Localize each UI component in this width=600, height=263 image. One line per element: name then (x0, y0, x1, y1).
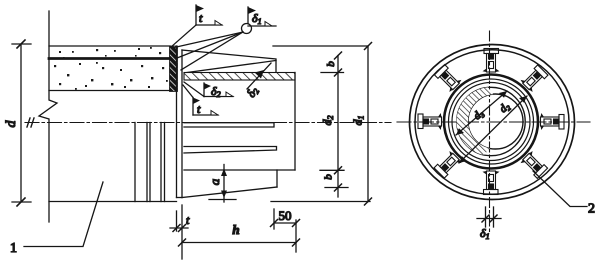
svg-text:δ1: δ1 (480, 226, 490, 241)
part label 1 leader (24, 182, 103, 247)
weld flag delta1 with circle (172, 7, 276, 70)
spigot pipe outline line lower (184, 169, 295, 171)
svg-text:d2: d2 (320, 116, 335, 126)
bell mouth cavity trapezoid (182, 50, 276, 73)
concrete stipple dots (54, 47, 168, 90)
dimension h (179, 220, 300, 252)
concrete pipe wall outer line (49, 45, 170, 47)
bell end ring line left (176, 46, 178, 198)
concrete pipe wall steel band thick line (49, 57, 170, 60)
hub outer circle thick (444, 75, 538, 169)
dimension d line (12, 40, 31, 206)
bell bottom edge (49, 201, 177, 203)
bore circle eccentric (468, 94, 523, 149)
part label 2 leader (533, 171, 587, 207)
seal outer circle (457, 87, 525, 155)
svg-text:50: 50 (279, 208, 292, 223)
svg-text:b: b (325, 61, 337, 67)
dimension 50 (271, 209, 300, 229)
dimension b d2 b shared line (320, 52, 348, 197)
hub circle 3 (452, 83, 530, 161)
bell mouth inner cone line (185, 61, 276, 73)
dimension d2 diagonal line (459, 96, 527, 163)
svg-text:d1: d1 (351, 116, 366, 126)
end view vertical centerline (489, 31, 491, 233)
pipe left edge with break symbol (39, 11, 57, 222)
ribs (8) (483, 49, 500, 73)
spigot taper line (182, 187, 277, 198)
bell end ring line right (181, 50, 183, 198)
outer bell ring inner circle (415, 50, 569, 195)
spigot 45deg rib bar (184, 147, 277, 154)
bell exterior ring lines (135, 123, 165, 202)
main centerline axis (25, 122, 391, 124)
svg-text:b: b (323, 174, 335, 180)
svg-text:t: t (186, 213, 190, 227)
svg-text:1: 1 (10, 241, 17, 256)
svg-text:t: t (199, 11, 203, 25)
dimension d1 (273, 43, 372, 206)
spigot side rib bar near axis (184, 123, 274, 127)
end view horizontal centerline (397, 121, 590, 123)
break marks on axis (27, 118, 34, 127)
svg-text:δ2: δ2 (244, 84, 262, 99)
svg-text:t: t (197, 102, 201, 116)
bottom extension line of pipe (271, 201, 370, 203)
bell end ring step (177, 197, 183, 199)
dimension delta1 bottom (477, 207, 501, 227)
svg-text:2: 2 (588, 202, 595, 217)
spigot pipe wall hatched strip (184, 73, 295, 81)
svg-text:d: d (4, 120, 19, 128)
weld flag t top (171, 5, 222, 47)
spigot bottom rib edge (276, 170, 278, 187)
svg-text:δ2: δ2 (211, 84, 221, 99)
hub circle 2 (449, 79, 534, 164)
leader delta2 rotated (247, 63, 271, 89)
weld flag t lower (183, 85, 218, 115)
svg-text:δ1: δ1 (252, 11, 262, 26)
svg-text:d2: d2 (497, 100, 513, 116)
dimension t bottom (170, 205, 188, 259)
svg-text:h: h (232, 222, 239, 237)
concrete pipe wall inner line (49, 90, 170, 92)
weld flag delta2 (184, 82, 233, 97)
bell end seal strip (hatched dark) (170, 46, 178, 92)
svg-text:a: a (207, 178, 222, 185)
seal crescent hatch (457, 87, 494, 155)
dimension d3 diagonal line (456, 91, 507, 135)
outer bell ring outer circle (410, 45, 575, 200)
dimension a (209, 165, 236, 203)
spigot pipe end face (294, 73, 296, 171)
